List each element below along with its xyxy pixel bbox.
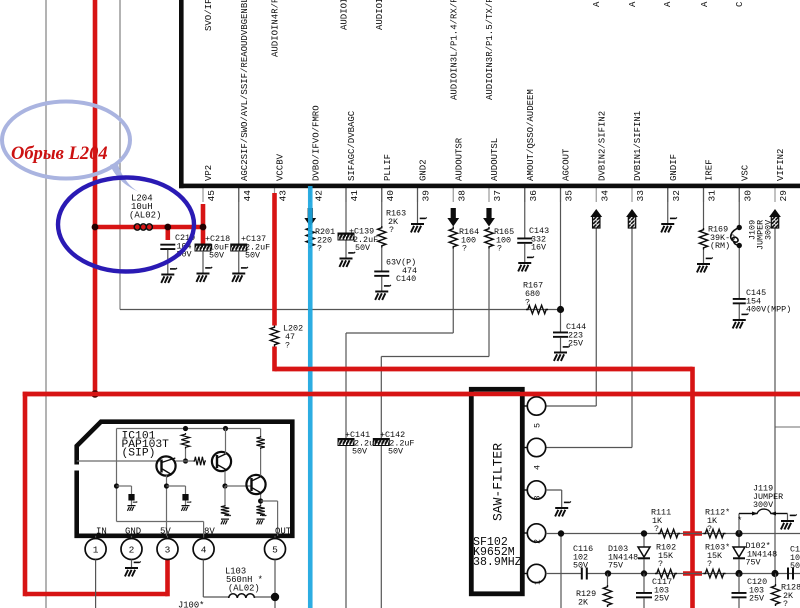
svg-text:VP2: VP2 [204, 165, 214, 181]
svg-text:GND2: GND2 [419, 159, 429, 181]
svg-text:1: 1 [533, 580, 543, 585]
svg-text:75V: 75V [608, 561, 623, 571]
svg-text:C140: C140 [396, 274, 416, 284]
svg-text:16V: 16V [531, 243, 546, 253]
svg-text:?: ? [285, 341, 290, 351]
svg-text:25V: 25V [568, 338, 583, 348]
svg-text:J100*: J100* [178, 601, 204, 608]
svg-text:35: 35 [564, 190, 575, 202]
svg-text:OUT: OUT [275, 527, 292, 537]
svg-text:AUDIOIN3R/P1.5/TX/P: AUDIOIN3R/P1.5/TX/P [485, 0, 495, 100]
svg-text:8V: 8V [204, 527, 215, 537]
svg-text:50V: 50V [355, 243, 370, 253]
svg-text:C: C [735, 1, 745, 7]
svg-text:SIFAGC/DVBAGC: SIFAGC/DVBAGC [347, 110, 357, 181]
svg-text:VCCBV: VCCBV [276, 153, 286, 181]
svg-text:?: ? [707, 524, 712, 534]
svg-text:DVBO/IFVO/FMRO: DVBO/IFVO/FMRO [311, 105, 321, 181]
svg-text:75V: 75V [746, 558, 761, 568]
svg-text:29: 29 [778, 190, 789, 202]
svg-text:(AL02): (AL02) [228, 584, 260, 594]
svg-text:?: ? [654, 524, 659, 534]
svg-text:50: 50 [790, 561, 800, 571]
svg-text:Обрыв L204: Обрыв L204 [11, 144, 108, 164]
svg-text:44: 44 [242, 190, 253, 202]
svg-text:SVO/IF: SVO/IF [204, 0, 214, 31]
svg-text:2: 2 [129, 545, 135, 556]
svg-text:?: ? [462, 244, 467, 254]
svg-text:AUDOUTSL: AUDOUTSL [490, 138, 500, 181]
svg-text:2: 2 [533, 539, 543, 544]
svg-text:37: 37 [492, 190, 503, 201]
svg-text:25V: 25V [654, 594, 669, 604]
svg-text:40: 40 [385, 190, 396, 202]
svg-text:43: 43 [278, 190, 289, 202]
svg-text:3: 3 [533, 495, 543, 500]
svg-text:PLLIF: PLLIF [383, 154, 393, 181]
svg-text:50V: 50V [388, 447, 403, 457]
svg-text:5V: 5V [160, 527, 171, 537]
svg-text:39: 39 [421, 190, 432, 202]
svg-text:42: 42 [313, 190, 324, 202]
svg-text:?: ? [658, 559, 663, 569]
svg-text:36: 36 [528, 190, 539, 202]
svg-text:?: ? [497, 244, 502, 254]
svg-text:AUDOUTSR: AUDOUTSR [454, 137, 464, 181]
svg-text:45: 45 [206, 190, 217, 202]
svg-text:AMOUT/QSSO/AUDEEM: AMOUT/QSSO/AUDEEM [526, 89, 536, 181]
svg-text:A: A [628, 1, 638, 7]
svg-text:VSC: VSC [740, 164, 750, 181]
svg-text:50V: 50V [352, 447, 367, 457]
svg-text:DVBIN2/SIFIN2: DVBIN2/SIFIN2 [597, 111, 607, 181]
svg-text:30: 30 [742, 190, 753, 202]
svg-text:4: 4 [201, 545, 207, 556]
svg-text:5: 5 [533, 423, 543, 428]
svg-text:50V: 50V [245, 251, 260, 261]
svg-text:?: ? [707, 559, 712, 569]
svg-text:AUDIOIN3L/P1.4/RX/P: AUDIOIN3L/P1.4/RX/P [450, 0, 460, 100]
svg-text:AUDIOIN: AUDIOIN [375, 0, 385, 30]
svg-text:AUDIOIN: AUDIOIN [340, 0, 350, 30]
svg-text:AGC2SIF/SWO/AVL/SSIF/REAOUDVBG: AGC2SIF/SWO/AVL/SSIF/REAOUDVBGENBL/P [240, 0, 250, 181]
svg-text:3: 3 [165, 545, 171, 556]
svg-text:1: 1 [93, 545, 99, 556]
svg-text:A: A [700, 1, 710, 7]
svg-text:(RM): (RM) [710, 241, 730, 251]
svg-text:DVBIN1/SIFIN1: DVBIN1/SIFIN1 [633, 111, 643, 181]
svg-text:IN: IN [96, 527, 107, 537]
svg-text:41: 41 [349, 190, 360, 202]
svg-text:A: A [663, 1, 673, 7]
svg-text:?: ? [783, 599, 788, 608]
svg-text:IREF: IREF [705, 159, 715, 181]
svg-text:?: ? [389, 225, 394, 235]
svg-text:32: 32 [671, 190, 682, 202]
svg-text:?: ? [317, 244, 322, 254]
svg-text:300V: 300V [753, 500, 773, 510]
svg-text:400V(MPP): 400V(MPP) [746, 305, 791, 315]
svg-text:50V: 50V [209, 251, 224, 261]
svg-text:*: * [737, 516, 742, 526]
svg-text:(AL02): (AL02) [129, 211, 161, 221]
svg-text:5: 5 [272, 545, 278, 556]
svg-text:SAW-FILTER: SAW-FILTER [491, 443, 506, 521]
svg-text:AUDIOIN4R/P: AUDIOIN4R/P [271, 0, 281, 57]
svg-text:2K: 2K [578, 597, 589, 607]
svg-text:38: 38 [456, 190, 467, 202]
svg-text:31: 31 [707, 190, 718, 202]
svg-text:33: 33 [635, 190, 646, 202]
svg-text:(SIP): (SIP) [122, 448, 156, 460]
svg-text:A: A [592, 1, 602, 7]
svg-text:AGCOUT: AGCOUT [562, 148, 572, 181]
svg-text:50V: 50V [573, 561, 588, 571]
svg-text:4: 4 [533, 465, 543, 470]
svg-text:GNDIF: GNDIF [669, 154, 679, 181]
svg-text:GND: GND [125, 527, 141, 537]
svg-text:25V: 25V [749, 594, 764, 604]
svg-text:?: ? [525, 298, 530, 308]
svg-text:VIFIN2: VIFIN2 [776, 149, 786, 181]
svg-text:34: 34 [599, 190, 610, 202]
svg-text:38.9MHZ: 38.9MHZ [473, 556, 522, 569]
